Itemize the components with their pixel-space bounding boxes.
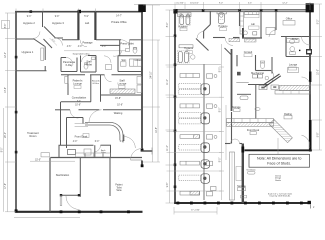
fixture: press toilet sink	[126, 49, 130, 52]
svg-text:Hygiene 1: Hygiene 1	[22, 50, 34, 54]
svg-text:5'-9": 5'-9"	[84, 16, 89, 18]
wall: private office bottom	[96, 39, 121, 41]
dim line top	[134, 4, 310, 6]
wall: diagonal passage entry lower	[44, 39, 53, 48]
wall: corridor/lounge divider	[255, 85, 257, 119]
svg-text:13'-6": 13'-6"	[5, 87, 7, 93]
svg-text:9'-6": 9'-6"	[167, 183, 169, 188]
niche box + arc	[106, 65, 112, 70]
svg-text:4'-1 3/4": 4'-1 3/4"	[176, 2, 184, 4]
equip: dark box	[237, 72, 241, 76]
wall: mid band y75	[61, 74, 85, 76]
tiny box above bottom wall	[241, 195, 247, 198]
svg-text:20'-0": 20'-0"	[5, 132, 7, 138]
svg-text:Face of Studs.: Face of Studs.	[267, 161, 291, 165]
svg-text:Consult: Consult	[244, 51, 253, 54]
wall: corridor diagonal	[196, 39, 209, 51]
wall: right-plan right exterior	[309, 4, 311, 120]
right plan dimensions	[134, 2, 322, 215]
column marks right plan left wall	[174, 35, 177, 38]
op2 cabinet	[217, 12, 226, 14]
svg-text:Waiting: Waiting	[114, 111, 123, 115]
svg-text:Studio: Studio	[275, 179, 282, 182]
column marks left wall	[15, 56, 18, 59]
svg-text:Hygiene: Hygiene	[184, 47, 194, 50]
corridor counter row upper	[227, 119, 274, 123]
door arc: press toilet entry	[113, 49, 122, 58]
svg-text:9'-0": 9'-0"	[219, 2, 223, 4]
column: right-plan top-left corner	[173, 9, 177, 14]
svg-text:Lounge: Lounge	[289, 63, 298, 66]
door arc: bottom room	[66, 196, 80, 210]
svg-text:12'-0": 12'-0"	[5, 52, 7, 58]
svg-text:Private Office: Private Office	[111, 20, 127, 24]
svg-text:Hygiene 3: Hygiene 3	[52, 21, 64, 25]
front desk box label area	[250, 132, 256, 135]
door arc: hygiene2 rp	[197, 32, 204, 39]
ops middle spine	[203, 64, 205, 200]
door arc: private office	[121, 40, 130, 49]
door arc: staff toilet	[82, 56, 89, 63]
column marks top wall	[78, 10, 81, 13]
wall: below corridor double doors	[225, 143, 231, 145]
wall: waiting top	[55, 109, 70, 111]
wall: below patient lounge	[61, 101, 91, 103]
svg-text:12'-2": 12'-2"	[282, 2, 288, 4]
storage box lower	[238, 188, 246, 191]
svg-text:Room: Room	[30, 134, 37, 138]
svg-text:4'-0": 4'-0"	[78, 46, 83, 48]
dim stub right of desk	[277, 138, 279, 160]
operatory bays (dashed equipment + chairs)	[175, 74, 221, 196]
wall: x236 stub	[236, 55, 238, 66]
wall: steri right	[260, 11, 262, 38]
wall: staff toilet rp	[255, 55, 257, 71]
corridor boxes	[259, 85, 267, 89]
svg-text:8'-0": 8'-0"	[219, 68, 221, 73]
svg-text:Press Toilet: Press Toilet	[120, 42, 134, 46]
wall: office left	[275, 11, 277, 30]
wall: below staff lounge	[101, 94, 143, 96]
room: press toilet / stor / closet block	[100, 44, 120, 46]
wall: below steri	[242, 37, 262, 39]
ticks above top wall	[15, 9, 17, 12]
wall: hygiene divider top	[209, 11, 211, 25]
lounge counter hatched	[280, 85, 311, 90]
svg-text:8'-6": 8'-6"	[5, 24, 7, 29]
wall: hygiene1 chamfer	[34, 39, 45, 46]
svg-text:Drawn by: DDS Sheet A-1: Drawn by: DDS Sheet A-1	[270, 195, 291, 198]
fixture: rp toilet wc	[290, 47, 295, 52]
mech boxes	[253, 75, 258, 79]
diagonal dims	[50, 38, 58, 46]
svg-text:24'-10": 24'-10"	[150, 71, 152, 78]
dim line left of right plan	[168, 10, 170, 203]
column marks right wall	[141, 149, 144, 152]
svg-text:8'-9": 8'-9"	[167, 23, 169, 28]
svg-text:Suspended Ceiling: Suspended Ceiling	[73, 53, 90, 55]
door arc: corridor	[225, 38, 233, 46]
wall: storage right vertical	[242, 144, 244, 204]
wall: mid bottom room divider	[79, 158, 81, 197]
wall: x272 stub	[271, 57, 273, 74]
wall: steri left	[239, 11, 241, 26]
svg-text:Files: Files	[101, 152, 105, 154]
wall: hygiene2/hygiene3 divider	[42, 12, 44, 27]
porch box outside left	[2, 21, 10, 29]
hatched counter below corridor wall	[229, 38, 240, 41]
wall: hygiene1 right lower	[44, 66, 46, 71]
door leaf: hygiene1	[41, 48, 44, 61]
svg-text:Toilet: Toilet	[292, 38, 298, 41]
svg-text:10'-6": 10'-6"	[117, 105, 123, 107]
door arc lower rooms	[94, 145, 101, 152]
wall: sterilization left	[49, 158, 51, 212]
door arc: into waiting	[70, 110, 78, 118]
fixture: staff toilet sink	[92, 57, 96, 60]
wall: patient toilet divider	[109, 158, 111, 197]
op3 chairs lower hygiene	[179, 52, 183, 63]
wall: records room sides	[90, 75, 92, 102]
svg-text:10'-0": 10'-0"	[317, 69, 319, 75]
svg-text:Lounge: Lounge	[118, 82, 127, 86]
svg-text:X-Ray: X-Ray	[65, 63, 73, 67]
wall: office/toilet h	[281, 36, 310, 38]
svg-text:10'-6": 10'-6"	[75, 105, 81, 107]
fixture: rp toilet sink counter	[287, 39, 300, 43]
op2 chair single	[218, 13, 224, 24]
treatment room equip box	[41, 153, 50, 157]
door leaf bottom room	[60, 196, 62, 206]
cabinets above wall	[76, 153, 85, 157]
door arc: pano from passage	[66, 58, 73, 65]
wall: mech bottom	[248, 84, 269, 86]
wall: diagonal below	[204, 25, 211, 32]
svg-text:8'-0": 8'-0"	[219, 108, 221, 113]
lounge table	[288, 68, 299, 73]
closet shelves	[130, 59, 142, 66]
dim line right of right plan	[319, 4, 321, 150]
op bay 1	[179, 74, 217, 95]
column marks right plan bottom wall	[177, 202, 180, 205]
door arc: office	[269, 30, 276, 37]
storage upper label box	[234, 109, 241, 112]
svg-text:9'-3": 9'-3"	[27, 16, 32, 18]
wall: consult/ops divider	[231, 49, 233, 111]
svg-text:Sterilization: Sterilization	[56, 173, 70, 177]
walls lower small rooms	[58, 145, 60, 157]
counter below steri hatched	[245, 39, 257, 42]
svg-text:Railing: Railing	[284, 113, 292, 116]
svg-text:9'-9": 9'-9"	[55, 16, 60, 18]
svg-text:Suite: Suite	[116, 189, 122, 192]
svg-text:Storage: Storage	[232, 106, 241, 109]
svg-text:9'-2": 9'-2"	[317, 20, 319, 25]
column: left-plan top-right corner	[138, 4, 146, 12]
wall: right-plan top exterior double	[174, 9, 311, 12]
svg-text:Hygiene: Hygiene	[218, 25, 228, 28]
dim line left inner partial	[2, 108, 4, 212]
note box frame	[249, 154, 310, 167]
ops area top line	[176, 63, 221, 65]
diagonal cap corridor	[225, 48, 232, 55]
room: pano x-ray walls	[60, 58, 62, 72]
svg-text:10'-6 1/2": 10'-6 1/2"	[190, 2, 199, 4]
right plan lounge / lower right	[225, 57, 312, 203]
svg-text:Toilet: Toilet	[86, 63, 92, 67]
svg-text:Front Desk: Front Desk	[75, 135, 88, 139]
right plan labels	[178, 17, 298, 197]
fixture: press toilet wc	[133, 48, 137, 53]
corner tick bottom right	[310, 205, 312, 209]
wall: left-plan left exterior	[15, 11, 17, 213]
svg-text:Passage: Passage	[82, 41, 93, 45]
wall: interior bottom-right h	[245, 149, 313, 151]
curtain line passage	[64, 50, 126, 52]
svg-text:Storage: Storage	[237, 185, 246, 188]
op bay 2	[179, 104, 217, 124]
door arc: lab	[80, 40, 87, 47]
svg-text:Consultation: Consultation	[72, 96, 87, 100]
entry vestibule	[123, 135, 125, 142]
svg-text:Patient: Patient	[115, 184, 123, 187]
door arc: waiting top gap	[89, 110, 102, 123]
svg-text:Ventilation: Ventilation	[246, 168, 255, 171]
svg-text:Closet: Closet	[134, 58, 142, 62]
door arc: rp toilet	[302, 37, 311, 46]
svg-text:9'-6": 9'-6"	[77, 100, 81, 102]
door arc: lounge right wall	[302, 77, 311, 86]
op bay 4	[180, 160, 213, 169]
wall: lab bottom	[62, 39, 79, 41]
svg-text:6'-0": 6'-0"	[95, 141, 100, 143]
wall: patient lounge left + cabinet	[67, 75, 69, 95]
svg-text:14'-7": 14'-7"	[116, 16, 122, 18]
svg-text:Mechanical: Mechanical	[251, 72, 264, 75]
interior dim line vertical	[221, 44, 223, 200]
svg-text:Office: Office	[286, 17, 293, 20]
svg-text:4'-0": 4'-0"	[120, 141, 125, 143]
oval table corridor	[255, 107, 260, 110]
boxes right wall staff lounge	[137, 77, 142, 85]
fixture: rp mop sink dark	[306, 49, 312, 55]
wall: corridor top h	[213, 37, 225, 39]
svg-text:Stor.: Stor.	[121, 58, 127, 62]
wall: lounge diagonal corner	[263, 74, 280, 85]
svg-text:17'-1 3/4": 17'-1 3/4"	[191, 210, 200, 212]
desk: office	[283, 21, 295, 26]
svg-text:5'-5": 5'-5"	[248, 2, 252, 4]
wall: left-plan bottom exterior	[15, 211, 142, 213]
desk boxes lower rooms	[68, 150, 76, 155]
svg-text:Note: All Dimensions are to: Note: All Dimensions are to	[257, 157, 301, 161]
wall: right-plan left exterior	[174, 9, 176, 203]
railing box	[284, 116, 292, 119]
counter: staff lounge hatched	[110, 89, 135, 94]
door arc: entry bottom right	[299, 135, 312, 148]
wall: left-plan top exterior	[15, 11, 143, 13]
svg-text:4'-6": 4'-6"	[67, 46, 72, 48]
door arc: staff lounge	[105, 75, 112, 82]
door arc: rp staff toilet	[266, 71, 277, 82]
svg-text:15'-8": 15'-8"	[115, 98, 121, 100]
wall: corridor left	[60, 102, 62, 145]
front desk counter straight+curve	[85, 122, 123, 142]
svg-text:9'-8": 9'-8"	[317, 133, 319, 138]
wall: below waiting	[51, 157, 143, 159]
ventilation box	[248, 171, 256, 174]
svg-text:8'-0": 8'-0"	[1, 148, 3, 153]
op1 cabinets top-left	[178, 13, 192, 17]
bay divider lines	[175, 97, 221, 191]
wall: bottom room header	[61, 194, 80, 196]
dim line right of left plan	[152, 5, 154, 162]
sterilization equipment boxes	[240, 12, 244, 35]
door arc: hygiene2	[33, 32, 40, 39]
svg-text:17'-6": 17'-6"	[5, 183, 7, 189]
svg-text:19'-8": 19'-8"	[156, 127, 158, 133]
door arc: hygiene3	[55, 38, 63, 46]
fixture: rp staff toilet wc	[260, 63, 264, 69]
dim line bottom left plan	[14, 217, 80, 219]
svg-text:Lab: Lab	[85, 21, 90, 25]
diagonal front desk	[269, 120, 292, 143]
svg-text:Front Desk: Front Desk	[247, 129, 260, 132]
double door arcs	[231, 139, 236, 144]
wall: toilet bottom	[286, 56, 310, 58]
wall: right-plan bottom exterior	[174, 202, 311, 204]
wall: hygiene3 bottom	[55, 37, 64, 39]
op bay 3	[179, 135, 217, 153]
svg-text:15'-0": 15'-0"	[35, 159, 41, 161]
svg-text:Hygiene 2: Hygiene 2	[23, 21, 35, 25]
note box	[249, 154, 310, 167]
svg-text:& Files: & Files	[93, 83, 99, 85]
room: staff toilet walls	[80, 56, 82, 73]
wall: below hygiene2	[16, 38, 34, 40]
wall: lab left (thick)	[77, 12, 79, 40]
svg-text:4'-0": 4'-0"	[102, 46, 107, 48]
svg-text:4'-0": 4'-0"	[73, 141, 78, 143]
front desk office walls	[67, 117, 84, 119]
svg-text:11'-0": 11'-0"	[167, 145, 169, 151]
wall: below front desk	[59, 144, 94, 146]
dim line left outer	[6, 13, 8, 212]
wall: diagonal passage entry upper	[44, 27, 56, 39]
treatment room dim line	[30, 160, 75, 162]
corridor counter row hatched	[227, 123, 274, 127]
wall: lab right (thick)	[94, 12, 96, 40]
closet shelves bottom	[230, 152, 235, 200]
wall: below hygiene1	[16, 70, 47, 72]
fixture: staff toilet wc	[84, 64, 88, 69]
op bay 5	[179, 174, 216, 196]
wall: left-plan right exterior	[141, 5, 143, 150]
column marks right plan top wall	[202, 9, 205, 12]
column marks bottom wall	[60, 210, 63, 213]
dim line bottom right plan	[174, 211, 217, 213]
svg-text:Toilet: Toilet	[116, 186, 122, 189]
op1 chairs	[180, 15, 184, 25]
svg-text:11'-0": 11'-0"	[167, 79, 169, 85]
svg-text:Lounge: Lounge	[73, 82, 82, 86]
consult table	[237, 93, 251, 95]
svg-text:8'-0": 8'-0"	[219, 158, 221, 163]
wall: toilet left	[285, 37, 287, 57]
column: right-plan top-right corner	[306, 3, 314, 12]
